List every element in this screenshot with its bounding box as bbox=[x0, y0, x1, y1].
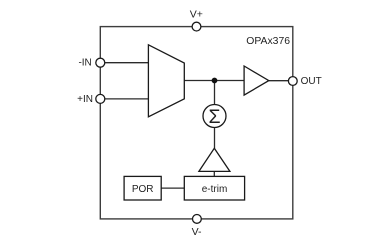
svg-text:e-trim: e-trim bbox=[202, 184, 228, 195]
svg-text:V+: V+ bbox=[190, 9, 203, 21]
svg-text:+IN: +IN bbox=[77, 94, 93, 105]
svg-text:POR: POR bbox=[132, 184, 154, 195]
svg-text:OUT: OUT bbox=[301, 76, 322, 87]
svg-text:OPAx376: OPAx376 bbox=[246, 36, 290, 47]
svg-text:-IN: -IN bbox=[78, 58, 91, 69]
svg-text:V-: V- bbox=[192, 226, 202, 237]
svg-text:Σ: Σ bbox=[208, 106, 220, 128]
